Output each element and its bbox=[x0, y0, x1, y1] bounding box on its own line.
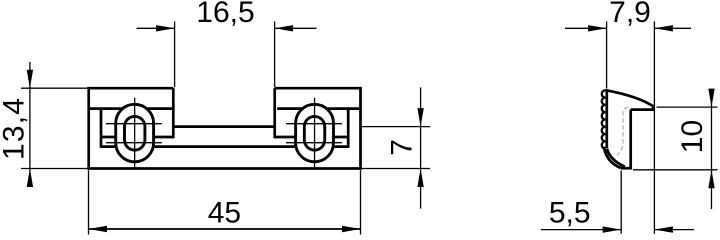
arrow 5,5 right (outside, pointing left) bbox=[654, 226, 673, 232]
dim 7 extension lines bbox=[362, 127, 431, 169]
groove arm lines y137 bbox=[101, 136, 348, 139]
step line left block bbox=[90, 107, 172, 110]
right slot inner obround bbox=[304, 116, 324, 150]
arrow 13,4 bottom (outside, pointing up) bbox=[27, 169, 33, 188]
dim 10 dimension line bbox=[711, 89, 713, 209]
left wall bbox=[605, 89, 608, 148]
right block inner edge bbox=[273, 88, 276, 138]
part left edge bbox=[87, 87, 90, 169]
arrow 16,5 right (outside, pointing left) bbox=[275, 25, 294, 31]
dim 7,9 dimension line bbox=[565, 27, 691, 29]
teeth serration bbox=[602, 90, 606, 148]
arrow 7,9 right (outside, pointing left) bbox=[654, 25, 673, 31]
arrow 13,4 top (outside, pointing down) bbox=[27, 70, 33, 89]
part right edge bbox=[359, 87, 362, 169]
step line right block bbox=[277, 107, 359, 110]
dim 5,5 dimension line bbox=[541, 229, 694, 231]
hook inner sweep bbox=[607, 149, 625, 167]
arrow 45 left (inside, pointing left) bbox=[89, 226, 108, 232]
dim 7,9 extension lines bbox=[607, 21, 655, 233]
long inner edge y146.6 bbox=[101, 145, 348, 148]
svg-text:5,5: 5,5 bbox=[549, 197, 591, 230]
dim 45 dimension line bbox=[89, 228, 361, 230]
arrow 7,9 left (outside, pointing right) bbox=[588, 25, 607, 31]
cap top arc bbox=[606, 90, 654, 106]
right slot vertical center line bbox=[314, 98, 316, 168]
svg-text:7: 7 bbox=[385, 139, 418, 156]
middle bar top edge bbox=[173, 125, 274, 128]
arrow 7 bottom (outside, pointing up) bbox=[417, 169, 423, 188]
arrow 45 right (inside, pointing right) bbox=[342, 226, 361, 232]
right slot horizontal center lines bbox=[286, 124, 342, 143]
left slot vertical center line bbox=[134, 98, 136, 168]
arrow 10 top (outside, pointing down) bbox=[708, 89, 714, 108]
dim 10 extension lines bbox=[633, 107, 718, 170]
stem bottom edge bbox=[621, 167, 632, 170]
dim 45 extension lines bbox=[89, 170, 361, 234]
dim 13,4 extension lines bbox=[21, 88, 88, 168]
dim 7 dimension line bbox=[420, 87, 422, 208]
dim 13,4 dimension line bbox=[29, 62, 31, 179]
svg-text:7,9: 7,9 bbox=[609, 0, 651, 29]
arrow 10 bottom (outside, pointing up) bbox=[708, 170, 714, 189]
left slot horizontal center lines bbox=[106, 124, 162, 143]
left block inner edge bbox=[172, 88, 175, 138]
right slot outer obround bbox=[296, 104, 334, 162]
right groove spine bbox=[347, 109, 350, 148]
arrow 16,5 left (outside, pointing right) bbox=[156, 25, 175, 31]
dim 5,5 extension line left bbox=[620, 171, 622, 234]
left slot inner obround bbox=[125, 116, 145, 150]
svg-text:13,4: 13,4 bbox=[0, 97, 30, 160]
left groove spine bbox=[100, 109, 103, 148]
arrow 5,5 left (outside, pointing right) bbox=[603, 226, 622, 232]
dim 16,5 extension lines bbox=[175, 21, 275, 87]
svg-text:10: 10 bbox=[676, 120, 709, 153]
stem right edge bbox=[629, 110, 632, 169]
hidden groove line bbox=[617, 107, 629, 155]
left slot outer obround bbox=[116, 104, 154, 162]
hook outer sweep bbox=[604, 147, 621, 168]
dim 16,5 dimension line bbox=[137, 27, 317, 29]
svg-text:16,5: 16,5 bbox=[196, 0, 254, 29]
part top edge right block bbox=[275, 87, 361, 90]
cap underside to tip bbox=[631, 107, 654, 110]
svg-text:45: 45 bbox=[208, 197, 241, 230]
part bottom edge bbox=[87, 167, 361, 170]
arrow 7 top (outside, pointing down) bbox=[417, 108, 423, 127]
part top edge left block bbox=[89, 87, 174, 90]
